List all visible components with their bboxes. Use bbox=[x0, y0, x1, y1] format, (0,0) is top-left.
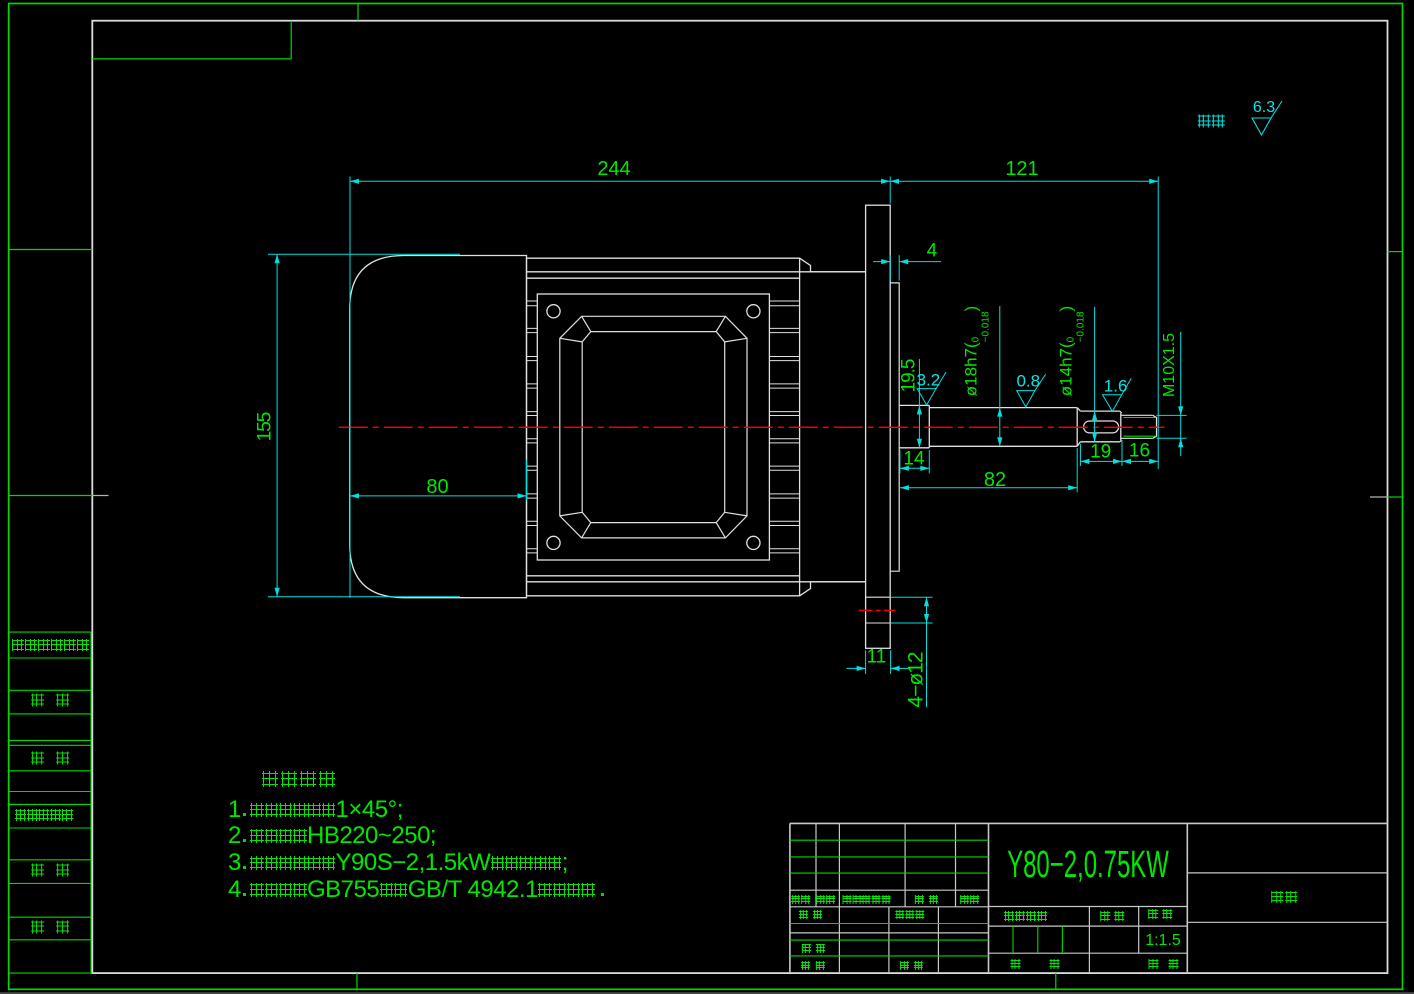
fold mark bottom right bbox=[1055, 973, 1057, 989]
dim text 11 bbox=[867, 647, 887, 666]
bolt hole bottom-left bbox=[547, 536, 560, 549]
dim text 4-dia12 bbox=[906, 652, 927, 707]
dim text 4 bbox=[927, 241, 938, 260]
dim text 80 bbox=[426, 477, 448, 497]
qiyu label (cyan) bbox=[1197, 115, 1225, 132]
terminal face plate (square with bolt holes) bbox=[537, 294, 769, 560]
dimension dia14 line bbox=[1094, 307, 1096, 442]
shaft o18 section bbox=[929, 408, 1080, 447]
sidebar label jiuditu zonghao bbox=[15, 809, 73, 825]
part name dianji bbox=[1270, 891, 1298, 907]
dimension 80 line bbox=[350, 460, 527, 500]
title block staff labels bbox=[799, 907, 823, 923]
fold mark right edge bbox=[1388, 251, 1403, 253]
chamfered frame octagon outer bbox=[560, 316, 747, 538]
gong ye / di ye bbox=[1010, 957, 1021, 973]
note line 1 bbox=[228, 798, 403, 822]
dimension 14 line bbox=[900, 450, 929, 474]
note line 3 bbox=[228, 851, 568, 875]
sidebar grid bbox=[9, 632, 93, 973]
dimension 4-dia12 leader bbox=[891, 597, 933, 707]
bolt hole top-right bbox=[747, 305, 760, 318]
centering mark right bbox=[1388, 496, 1403, 498]
chamfered frame inner window bbox=[582, 332, 725, 523]
dimension 16 line bbox=[1122, 460, 1158, 462]
title block middle section lines bbox=[989, 907, 1188, 974]
dimension 244 line bbox=[350, 177, 890, 598]
roughness symbol 3.2 bbox=[917, 372, 946, 405]
dim text 19 bbox=[1090, 442, 1111, 461]
dimension 4 line bbox=[873, 255, 941, 280]
motor stator body with fin band lines bbox=[527, 258, 866, 596]
dim text dia18h7 bbox=[963, 306, 992, 396]
dimension 121 line bbox=[890, 177, 1158, 470]
dim text dia14h7 bbox=[1058, 306, 1087, 396]
dim text 0.8 bbox=[1016, 373, 1040, 390]
dim text 16 bbox=[1129, 441, 1150, 460]
sidebar label jiaomiao bbox=[30, 752, 70, 769]
top-left green block bbox=[92, 21, 291, 59]
threaded stud M10 outline bbox=[1121, 415, 1157, 438]
keyway slot bbox=[1084, 421, 1119, 433]
roughness symbol 1.6 bbox=[1103, 378, 1132, 411]
note line 2 bbox=[228, 824, 436, 848]
shaft o14 keyway section bbox=[1080, 411, 1121, 442]
shaft shoulder bbox=[899, 405, 929, 447]
sidebar label miaotu bbox=[30, 694, 70, 711]
dimension 11 line bbox=[846, 650, 911, 674]
dimension dia18 line bbox=[999, 306, 1001, 446]
sidebar label jietongyongjiandengji bbox=[11, 639, 89, 655]
roughness 6.3 value bbox=[1253, 100, 1275, 116]
scale value bbox=[1145, 933, 1181, 949]
flange spigot bbox=[890, 283, 899, 571]
cooling fins right of plate bbox=[769, 301, 799, 553]
title block revision labels bbox=[791, 892, 811, 908]
title block left section lines bbox=[790, 823, 989, 973]
dim text 1.6 bbox=[1104, 377, 1128, 394]
dimension 19.5 line bbox=[918, 359, 920, 448]
dim text 14 bbox=[903, 449, 924, 468]
title block outline bbox=[790, 823, 1388, 973]
bolt hole bottom-right bbox=[747, 536, 760, 549]
cooling fins left of plate bbox=[527, 301, 538, 553]
dimension 155 line bbox=[268, 254, 460, 596]
dim text 155 bbox=[256, 413, 275, 442]
dimension M10X1.5 line bbox=[1157, 332, 1187, 456]
motor fan cowl (rear rounded cover) bbox=[350, 256, 527, 598]
roughness symbol 6.3 top right bbox=[1252, 101, 1282, 135]
roughness symbol 0.8 bbox=[1017, 374, 1046, 407]
front end-bell chamfers and bearing housing bbox=[800, 258, 866, 596]
middle labels tuyangbiaoji zhongliang bili bbox=[1004, 909, 1048, 925]
thread minor lines bbox=[1124, 418, 1156, 437]
note line 4 bbox=[228, 878, 608, 902]
title block right section lines bbox=[1187, 873, 1387, 922]
dimension 82 line bbox=[900, 448, 1077, 492]
dim text 19.5 bbox=[899, 359, 918, 392]
main centerline bbox=[339, 426, 1165, 428]
centering mark left bbox=[9, 495, 93, 497]
dim text 121 bbox=[1005, 159, 1038, 179]
part number Y80-2,0.75KW bbox=[1007, 846, 1169, 884]
drawing-mark ticks bbox=[1013, 926, 1062, 953]
fold mark bottom left bbox=[356, 973, 358, 989]
corner petals bbox=[560, 316, 747, 538]
dim text M10X1.5 bbox=[1162, 332, 1178, 396]
fold mark top bbox=[357, 4, 359, 21]
sidebar label qianzi bbox=[30, 864, 70, 881]
dim text 82 bbox=[984, 470, 1006, 490]
dim text 3.2 bbox=[917, 371, 941, 388]
dimension 19 line bbox=[1080, 440, 1122, 466]
sidebar label riqi bbox=[30, 920, 70, 937]
bolt hole top-left bbox=[547, 305, 560, 318]
flange plate bbox=[866, 205, 891, 648]
flange hole centerline bbox=[859, 609, 896, 611]
flange bolt hole lines bbox=[866, 597, 891, 623]
dim text 244 bbox=[597, 159, 630, 179]
screenshot bottom artifact strip bbox=[0, 992, 1414, 994]
fold mark left edge bbox=[9, 249, 93, 251]
tech notes title jishutiaojian bbox=[260, 771, 336, 791]
